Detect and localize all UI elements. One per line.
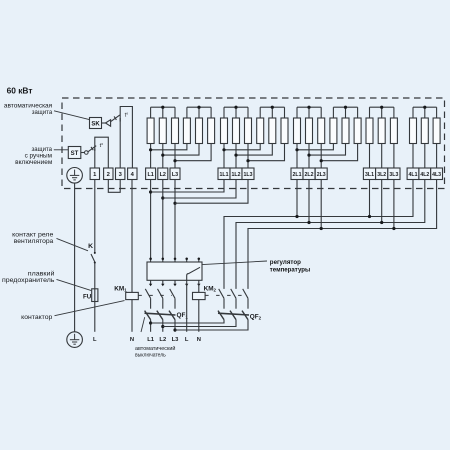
node G5A star point bbox=[423, 106, 426, 109]
svg-text:4L1: 4L1 bbox=[409, 172, 418, 178]
breaker pole 1 blade bbox=[145, 311, 151, 320]
label automatic protection bbox=[4, 102, 53, 116]
wire G3 parallel element 5 jog bbox=[309, 144, 346, 156]
wire SK to actuator bbox=[102, 122, 106, 124]
terminal 2 bbox=[104, 168, 113, 180]
KM1 linkage (dashed) bbox=[138, 294, 172, 296]
svg-text:L1: L1 bbox=[147, 172, 153, 178]
pin 7 bottom of regulator bbox=[161, 280, 164, 286]
wire t1 to terminal 3 bbox=[119, 118, 121, 168]
coil KM1 contactor bbox=[126, 292, 139, 299]
coil KM2 contactor bbox=[193, 292, 206, 299]
regulator internal switch bbox=[187, 267, 200, 280]
svg-text:автоматический: автоматический bbox=[135, 345, 175, 352]
svg-text:N: N bbox=[130, 337, 134, 343]
terminal 3L2 bbox=[376, 168, 388, 180]
svg-text:L3: L3 bbox=[172, 337, 180, 343]
resistor EKG33 heating element bbox=[318, 118, 325, 144]
terminal 3L3 bbox=[388, 168, 400, 180]
resistor EKG21 heating element bbox=[221, 118, 228, 144]
pin 1 top of regulator bbox=[149, 258, 152, 262]
node bus 3L3 bbox=[392, 227, 395, 230]
node G1 junction 2 bbox=[161, 154, 164, 157]
terminal 1L2 bbox=[230, 168, 242, 180]
op protection: SK thermostat box bbox=[90, 118, 102, 129]
pin 9 bottom of regulator bbox=[185, 280, 188, 286]
label contactor leader bbox=[55, 301, 125, 316]
svg-text:K: K bbox=[88, 243, 93, 250]
SK actuator triangle bbox=[106, 120, 111, 127]
svg-text:температуры: температуры bbox=[270, 266, 311, 273]
label manual protection bbox=[15, 146, 52, 166]
node branch L2 bbox=[161, 196, 164, 199]
contactor contact pole 3 bbox=[170, 289, 175, 309]
wire PE down bbox=[74, 183, 76, 332]
wire G1 parallel element 6 jog bbox=[175, 144, 211, 161]
heater bar G3B bbox=[333, 107, 357, 118]
resistor EKG42 heating element bbox=[378, 118, 385, 144]
resistor EKG15 heating element bbox=[196, 118, 203, 144]
wire regulator pin 9 to L end bbox=[186, 284, 188, 332]
contactor contact pole 2 bbox=[158, 289, 163, 309]
wire 3L2 drop bbox=[381, 180, 383, 223]
resistor EKG52 heating element bbox=[421, 118, 428, 144]
breaker pole 2 blade bbox=[230, 311, 236, 320]
wire supply bus L3 to QF2 bbox=[175, 320, 248, 330]
wire terminal 4 to KM1 coil bbox=[131, 180, 133, 293]
terminal L3 bbox=[170, 168, 180, 180]
wire G2 phase 3 lead bbox=[247, 144, 249, 169]
breaker pole 3 blade bbox=[242, 311, 248, 320]
node supply bus L3 bbox=[173, 328, 176, 331]
resistor EKG36 heating element bbox=[354, 118, 361, 144]
resistor EKG24 heating element bbox=[257, 118, 264, 144]
wire G4 phase 3 lead bbox=[393, 144, 395, 169]
wire L1 terminal to regulator pin 1 bbox=[150, 180, 152, 259]
wire branch to 1L3 bbox=[175, 180, 248, 204]
wire G2 parallel element 5 jog bbox=[236, 144, 272, 156]
resistor EKG25 heating element bbox=[269, 118, 276, 144]
svg-text:t°: t° bbox=[100, 143, 104, 149]
svg-text:FU: FU bbox=[83, 294, 92, 301]
terminal 2L1 bbox=[291, 168, 303, 180]
wire 3L1 drop bbox=[369, 180, 371, 217]
svg-text:1L1: 1L1 bbox=[220, 172, 229, 178]
wire G3 phase 2 lead bbox=[308, 144, 310, 169]
wire G1 parallel element 5 jog bbox=[163, 144, 199, 156]
svg-text:2L2: 2L2 bbox=[305, 172, 314, 178]
heater bar G3A bbox=[297, 107, 321, 118]
resistor EKG12 heating element bbox=[159, 118, 166, 144]
node bus 3L1 bbox=[368, 215, 371, 218]
svg-text:ST: ST bbox=[71, 151, 79, 157]
wire t1 to terminal 4 bbox=[131, 122, 133, 169]
terminal 3L1 bbox=[363, 168, 375, 180]
pin 2 top of regulator bbox=[162, 258, 165, 262]
wire G2 phase 1 lead bbox=[223, 144, 225, 169]
resistor EKG53 heating element bbox=[433, 118, 440, 144]
wire branch to 1L1 bbox=[151, 180, 224, 193]
node G1 junction 1 bbox=[149, 148, 152, 151]
heater bar G5A bbox=[413, 107, 437, 118]
svg-text:4L2: 4L2 bbox=[420, 172, 429, 178]
svg-text:2L1: 2L1 bbox=[293, 172, 302, 178]
wire G2 parallel element 6 jog bbox=[248, 144, 285, 161]
svg-text:вентилятора: вентилятора bbox=[14, 238, 54, 245]
wire L3 terminal to regulator pin 3 bbox=[174, 180, 176, 259]
wire supply bus L2 to QF2 bbox=[163, 320, 236, 327]
resistor EKG23 heating element bbox=[245, 118, 252, 144]
fuse FU bbox=[92, 289, 98, 302]
pin 4 top of regulator bbox=[185, 258, 188, 262]
node G2 junction 1 bbox=[222, 148, 225, 151]
capillary sensor t1 box bbox=[120, 107, 132, 122]
contactor contact pole 2 bbox=[231, 289, 236, 309]
label regulator leader bbox=[202, 261, 267, 265]
node G2 junction 3 bbox=[246, 159, 249, 162]
node G3 junction 2 bbox=[307, 154, 310, 157]
node bus 2L3 bbox=[320, 227, 323, 230]
node G3 junction 1 bbox=[295, 148, 298, 151]
node branch L3 bbox=[173, 202, 176, 205]
wire G2 parallel element 4 jog bbox=[224, 144, 260, 150]
terminal 3 bbox=[116, 168, 125, 180]
wire supply bus L1 to QF2 bbox=[151, 320, 224, 323]
svg-text:защита: защита bbox=[32, 109, 53, 116]
wire bus phase 2 to heater groups 2L/3L/4L bbox=[236, 180, 425, 289]
wire L2 terminal to regulator pin 2 bbox=[162, 180, 164, 259]
capillary sensor t2 box bbox=[95, 137, 109, 151]
wire QF1 pole 3 to supply L3 bbox=[174, 320, 176, 332]
label breaker leader bbox=[141, 317, 145, 332]
wire ST to pivot bbox=[81, 152, 85, 154]
node G2A star point bbox=[234, 106, 237, 109]
svg-text:3L1: 3L1 bbox=[365, 172, 374, 178]
wire G5 phase 2 lead bbox=[424, 144, 426, 169]
svg-text:t°: t° bbox=[125, 113, 129, 119]
terminal 2L2 bbox=[303, 168, 315, 180]
wire terminal 1 down (control phase) bbox=[94, 180, 96, 253]
heater bar G1A bbox=[151, 107, 175, 118]
pin 8 bottom of regulator bbox=[173, 280, 176, 286]
svg-text:предохранитель: предохранитель bbox=[2, 277, 55, 284]
wire t2 to terminal 1 bbox=[94, 149, 96, 169]
terminal 4L2 bbox=[419, 168, 431, 180]
svg-text:1L2: 1L2 bbox=[232, 172, 241, 178]
heater bar G2A bbox=[224, 107, 248, 118]
node supply bus L2 bbox=[161, 325, 164, 328]
node G1B star point bbox=[197, 106, 200, 109]
wire FU to L end bbox=[94, 302, 96, 332]
wire KM2 coil to N end bbox=[198, 300, 200, 332]
resistor EKG43 heating element bbox=[390, 118, 397, 144]
ground earth symbol bottom bbox=[67, 332, 83, 348]
svg-text:4L3: 4L3 bbox=[432, 172, 441, 178]
label fan relay leader bbox=[57, 238, 89, 250]
svg-text:контактор: контактор bbox=[21, 314, 53, 321]
wire G4 phase 2 lead bbox=[381, 144, 383, 169]
node bus 3L2 bbox=[380, 221, 383, 224]
wire G3 parallel element 4 jog bbox=[297, 144, 333, 150]
wire 2L1 drop bbox=[296, 180, 298, 217]
resistor EKG22 heating element bbox=[233, 118, 240, 144]
terminal 1 bbox=[90, 168, 99, 180]
resistor EKG14 heating element bbox=[183, 118, 190, 144]
ST pivot circle bbox=[85, 151, 89, 155]
wire KM1 coil to N end bbox=[131, 300, 133, 332]
terminal 4 bbox=[128, 168, 137, 180]
wire G1 phase 3 lead bbox=[174, 144, 176, 169]
node bus 2L2 bbox=[307, 221, 310, 224]
terminal 2L3 bbox=[315, 168, 327, 180]
resistor EKG31 heating element bbox=[294, 118, 301, 144]
contact K fan relay bbox=[91, 252, 96, 264]
svg-text:3L2: 3L2 bbox=[377, 172, 386, 178]
svg-text:3L3: 3L3 bbox=[389, 172, 398, 178]
wire jumper terminals 2-3 bbox=[108, 180, 120, 193]
breaker pole 1 blade bbox=[218, 311, 224, 320]
terminal L1 bbox=[146, 168, 156, 180]
svg-text:2L3: 2L3 bbox=[317, 172, 326, 178]
heater bar G4A bbox=[370, 107, 394, 118]
pin 10 bottom of regulator bbox=[197, 280, 200, 286]
label automatic breaker text bbox=[135, 345, 175, 359]
svg-text:2: 2 bbox=[107, 172, 110, 178]
wire QF1 pole 1 to supply L1 bbox=[150, 320, 152, 332]
svg-text:SK: SK bbox=[91, 122, 100, 128]
resistor EKG34 heating element bbox=[330, 118, 337, 144]
contactor contact pole 1 bbox=[219, 289, 224, 309]
svg-text:L: L bbox=[93, 337, 97, 343]
terminal 4L1 bbox=[407, 168, 419, 180]
pin 6 bottom of regulator bbox=[149, 280, 152, 286]
pin 5 top of regulator bbox=[198, 258, 201, 262]
terminal 1L1 bbox=[218, 168, 230, 180]
ground PE terminal in enclosure bbox=[67, 168, 83, 184]
wire G3 parallel element 6 jog bbox=[321, 144, 357, 161]
label automatic protection leader bbox=[54, 111, 89, 120]
node branch L1 bbox=[149, 190, 152, 193]
heater bar G2B bbox=[260, 107, 284, 118]
wire branch to 1L2 bbox=[163, 180, 236, 199]
label fuse bbox=[2, 270, 55, 284]
resistor EKG11 heating element bbox=[147, 118, 154, 144]
svg-text:L1: L1 bbox=[147, 337, 155, 343]
node G3 junction 3 bbox=[320, 159, 323, 162]
node G3A star point bbox=[307, 106, 310, 109]
wire t2 to terminal 2 bbox=[107, 151, 109, 168]
regulator A1 temperature controller box bbox=[147, 262, 202, 280]
node G4A star point bbox=[380, 106, 383, 109]
terminal L2 bbox=[158, 168, 168, 180]
resistor EKG26 heating element bbox=[281, 118, 288, 144]
breaker linkage bar bbox=[145, 313, 176, 315]
breaker pole 2 blade bbox=[157, 311, 163, 320]
pin 3 top of regulator bbox=[174, 258, 177, 262]
wire 3L3 drop bbox=[393, 180, 395, 229]
resistor EKG35 heating element bbox=[342, 118, 349, 144]
svg-text:выключатель: выключатель bbox=[135, 353, 166, 359]
svg-text:1L3: 1L3 bbox=[244, 172, 253, 178]
svg-text:L: L bbox=[185, 337, 189, 343]
breaker linkage bar bbox=[218, 313, 249, 315]
label fan relay contact bbox=[12, 232, 54, 245]
node G2B star point bbox=[271, 106, 274, 109]
wire bus phase 3 to heater groups 2L/3L/4L bbox=[248, 180, 437, 289]
svg-text:L2: L2 bbox=[160, 172, 166, 178]
resistor EKG41 heating element bbox=[366, 118, 373, 144]
wire G1 parallel element 4 jog bbox=[151, 144, 187, 150]
terminal 4L3 bbox=[431, 168, 443, 180]
resistor EKG32 heating element bbox=[306, 118, 313, 144]
wire G1 phase 2 lead bbox=[162, 144, 164, 169]
op protection: ST manual-reset box bbox=[68, 147, 81, 159]
svg-text:включением: включением bbox=[15, 159, 52, 166]
node G1A star point bbox=[161, 106, 164, 109]
node bus 2L1 bbox=[295, 215, 298, 218]
node G3B star point bbox=[344, 106, 347, 109]
label fuse leader bbox=[57, 279, 92, 290]
label regulator text bbox=[270, 259, 311, 273]
node supply bus L1 bbox=[149, 321, 152, 324]
svg-text:60 кВт: 60 кВт bbox=[7, 86, 33, 96]
SK switch blade bbox=[111, 115, 120, 122]
wire G4 phase 1 lead bbox=[369, 144, 371, 169]
node G2 junction 2 bbox=[234, 154, 237, 157]
node G1 junction 3 bbox=[173, 159, 176, 162]
label manual protection leader bbox=[54, 149, 69, 151]
svg-text:регулятор: регулятор bbox=[270, 259, 301, 266]
terminal 1L3 bbox=[242, 168, 254, 180]
wire K to FU bbox=[94, 262, 96, 288]
svg-text:L3: L3 bbox=[172, 172, 178, 178]
wire G3 phase 1 lead bbox=[296, 144, 298, 169]
wire G5 phase 1 lead bbox=[412, 144, 414, 169]
breaker pole 3 blade bbox=[169, 311, 175, 320]
contactor contact pole 1 bbox=[145, 289, 150, 309]
resistor EKG13 heating element bbox=[172, 118, 179, 144]
resistor EKG16 heating element bbox=[208, 118, 215, 144]
resistor EKG51 heating element bbox=[410, 118, 417, 144]
wire QF1 pole 2 to supply L2 bbox=[162, 320, 164, 332]
wire G2 phase 2 lead bbox=[235, 144, 237, 169]
ST switch blade bbox=[88, 146, 96, 152]
wire G5 phase 3 lead bbox=[436, 144, 438, 169]
KM2 linkage (dashed) bbox=[205, 294, 245, 296]
wire 2L3 drop bbox=[320, 180, 322, 229]
contactor contact pole 3 bbox=[243, 289, 248, 309]
svg-text:N: N bbox=[197, 337, 201, 343]
wire 2L2 drop bbox=[308, 180, 310, 223]
svg-text:L2: L2 bbox=[159, 337, 166, 343]
wire bus phase 1 to heater groups 2L/3L/4L bbox=[224, 180, 413, 289]
wire regulator pin 10 through KM2 coil bbox=[198, 284, 200, 292]
wire G3 phase 3 lead bbox=[320, 144, 322, 169]
heater bar G1B bbox=[187, 107, 211, 118]
wire G1 phase 1 lead bbox=[150, 144, 152, 169]
heater cabinet enclosure (dashed border) bbox=[62, 98, 445, 189]
